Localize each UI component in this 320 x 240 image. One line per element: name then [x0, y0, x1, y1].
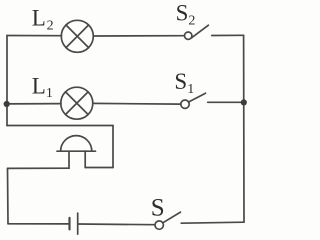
battery: [70, 213, 78, 234]
lamp L2: [61, 20, 93, 52]
wire S1 to right rail: [208, 101, 244, 103]
bell (dome and base): [57, 136, 96, 152]
wire L2 to switch S2: [93, 35, 184, 37]
wire vertical B (down to bell return): [112, 126, 114, 168]
wire left vertical rail (lower): [7, 168, 10, 223]
svg-text:S: S: [151, 195, 165, 222]
svg-text:S2: S2: [176, 1, 196, 29]
lamp L1: [61, 87, 93, 119]
svg-text:L2: L2: [32, 6, 54, 34]
node junction on right rail: [241, 99, 247, 105]
wire bell to left lower rail: [8, 167, 70, 169]
node junction on left rail: [4, 101, 10, 107]
wire middle rail left (to lamp L1): [7, 103, 61, 105]
wire S2 to right rail: [212, 34, 244, 36]
switch S: [155, 212, 181, 229]
wire S to bottom-right corner: [181, 222, 244, 223]
svg-text:S1: S1: [174, 69, 194, 97]
bell left leg: [68, 151, 70, 168]
bell right leg: [84, 151, 86, 168]
svg-text:L1: L1: [32, 73, 53, 101]
wire top rail left (to lamp L2): [7, 35, 62, 37]
wire right vertical rail: [243, 35, 245, 222]
wire L1 to switch S1: [93, 102, 181, 105]
wire bell feed horizontal (left rail to vertical B): [7, 125, 113, 127]
wire battery to switch S: [78, 223, 155, 226]
switch S2: [185, 25, 209, 39]
wire bell return horizontal (to bell right leg): [85, 167, 113, 169]
switch S1: [181, 93, 206, 108]
wire left vertical rail (upper): [6, 36, 8, 126]
wire bottom rail left (to battery): [8, 223, 70, 225]
